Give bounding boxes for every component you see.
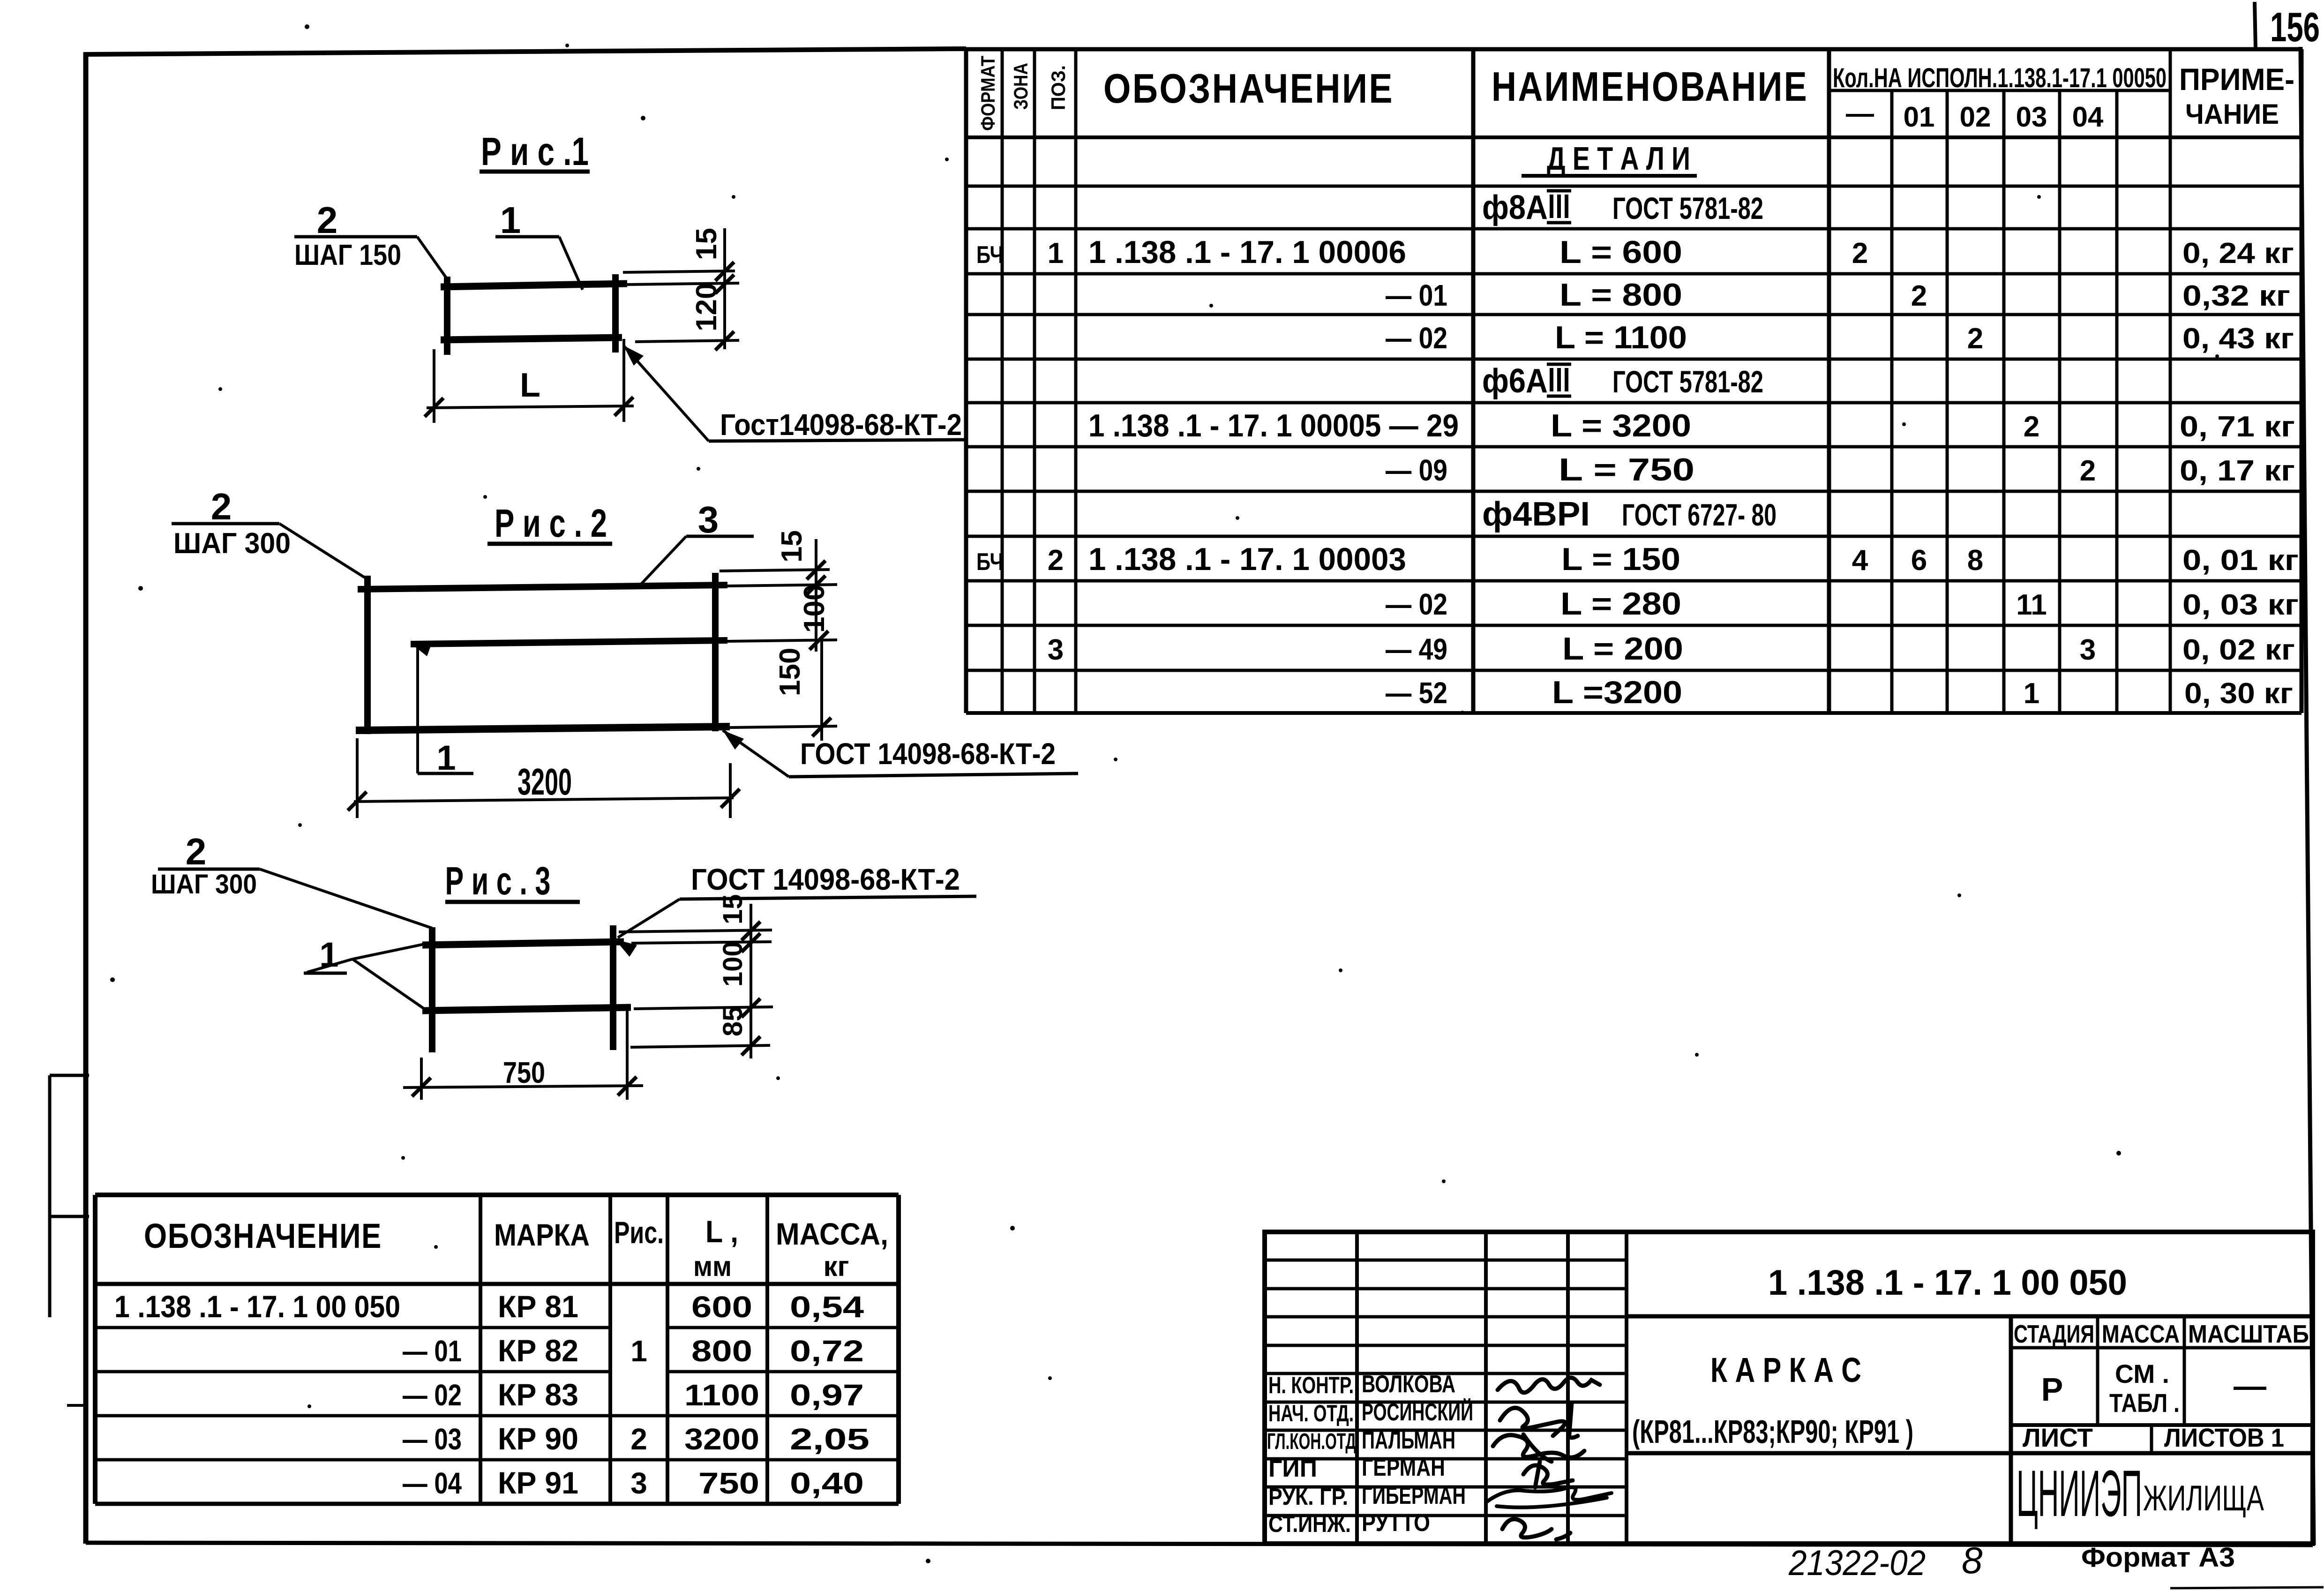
svg-text:0,32 кг: 0,32 кг: [2182, 280, 2290, 312]
marks table column line 4: [765, 1195, 769, 1504]
svg-text:ПРИМЕ-: ПРИМЕ-: [2179, 62, 2294, 97]
svg-text:МАССА,: МАССА,: [776, 1216, 888, 1251]
marks table row line 2: [95, 1370, 610, 1373]
Рис.2 3200 dim extension left: [356, 738, 359, 818]
Рис.3 right transverse bar: [610, 925, 616, 1050]
svg-text:Р: Р: [2041, 1371, 2063, 1408]
svg-text:3: 3: [630, 1466, 647, 1500]
svg-text:Кол.НА ИСПОЛН.1.138.1-17.1 000: Кол.НА ИСПОЛН.1.138.1-17.1 00050: [1833, 63, 2167, 93]
Рис.3 leader 2 line: [260, 869, 432, 928]
svg-text:Гост14098-68-КТ-2: Гост14098-68-КТ-2: [720, 408, 962, 442]
svg-text:мм: мм: [693, 1251, 732, 1282]
svg-text:150: 150: [774, 648, 806, 696]
title block row line: [1265, 1372, 1627, 1375]
Рис.3 extension line bar bottom: [630, 1045, 770, 1047]
svg-text:— 49: — 49: [1386, 632, 1447, 666]
svg-text:— 03: — 03: [403, 1422, 462, 1456]
signature Волкова: [1498, 1378, 1600, 1393]
svg-text:кг: кг: [823, 1251, 849, 1282]
spec table column line 3: [1074, 49, 1078, 713]
svg-text:— 52: — 52: [1386, 676, 1447, 710]
Рис.3 extension line top bar: [631, 942, 772, 943]
Рис.2 leader 3 underline: [686, 535, 754, 538]
Рис.1 extension line bar top: [623, 271, 735, 272]
Рис.3 extension line bar top: [619, 930, 772, 932]
Рис.3 caption underline: [445, 900, 580, 904]
stadiya row bottom: [2011, 1423, 2313, 1427]
svg-text:— 04: — 04: [403, 1466, 462, 1500]
svg-text:156: 156: [2270, 4, 2320, 50]
svg-text:ЛИСТОВ 1: ЛИСТОВ 1: [2164, 1423, 2284, 1452]
svg-text:ГОСТ 14098-68-КТ-2: ГОСТ 14098-68-КТ-2: [800, 737, 1056, 771]
spec table column line 0: [964, 49, 968, 713]
svg-text:НАИМЕНОВАНИЕ: НАИМЕНОВАНИЕ: [1492, 63, 1808, 110]
svg-text:БЧ: БЧ: [976, 548, 1004, 576]
svg-text:0, 17 кг: 0, 17 кг: [2180, 455, 2295, 487]
Рис.1 dim tick c: [715, 331, 734, 350]
massa/masshtab divider: [2183, 1316, 2186, 1425]
Рис.3 leader 1 line to top bar: [352, 944, 424, 959]
svg-text:0,97: 0,97: [790, 1378, 864, 1412]
svg-text:КР 82: КР 82: [498, 1333, 578, 1368]
svg-text:0, 02 кг: 0, 02 кг: [2182, 634, 2295, 666]
title block grid: [1265, 1232, 2313, 1544]
Рис.3 leader 1 line a: [307, 959, 352, 972]
Рис.2 3200 dim extension right: [729, 763, 732, 818]
marks table column line 3: [666, 1195, 669, 1504]
svg-text:Формат А3: Формат А3: [2081, 1542, 2235, 1573]
Рис.1 leader 2 underline: [294, 235, 417, 239]
Рис.3 left transverse bar: [429, 927, 435, 1052]
Рис.1 L dim tick left: [425, 398, 443, 417]
spec table row line 11: [966, 579, 2302, 583]
svg-text:0,54: 0,54: [790, 1290, 864, 1324]
svg-text:2: 2: [317, 199, 338, 241]
svg-text:ф4ВРI: ф4ВРI: [1482, 495, 1590, 533]
svg-text:1 .138 .1 - 17. 1 00005 — 29: 1 .138 .1 - 17. 1 00005 — 29: [1088, 408, 1459, 443]
Рис.3 750 dim extension left: [420, 1058, 423, 1100]
scan speckles: [305, 24, 309, 29]
signature Гиберман: [1486, 1487, 1612, 1508]
Рис.1 L dimension line: [427, 406, 634, 408]
svg-text:— 02: — 02: [403, 1378, 462, 1412]
svg-text:3200: 3200: [684, 1422, 759, 1456]
svg-text:3200: 3200: [517, 761, 572, 803]
svg-text:НАЧ. ОТД.: НАЧ. ОТД.: [1268, 1400, 1354, 1426]
marks table column line 1: [479, 1195, 482, 1504]
svg-text:ГИП: ГИП: [1268, 1456, 1317, 1482]
figure Рис.2 group: [172, 486, 1078, 818]
svg-text:750: 750: [503, 1056, 545, 1089]
svg-text:2: 2: [1852, 237, 1868, 270]
svg-text:Н. КОНТР.: Н. КОНТР.: [1268, 1372, 1354, 1398]
svg-text:0,72: 0,72: [790, 1334, 864, 1368]
title block row line: [1265, 1401, 1627, 1404]
Рис.2 extension line bottom bar: [730, 726, 837, 728]
title block row line: [1265, 1486, 1627, 1489]
Рис.1 leader 1 line: [559, 237, 583, 290]
svg-text:600: 600: [691, 1290, 752, 1324]
svg-text:L = 800: L = 800: [1559, 277, 1682, 313]
Рис.3 weld leader line: [618, 899, 680, 938]
svg-text:800: 800: [691, 1334, 752, 1368]
svg-text:ШАГ 300: ШАГ 300: [151, 869, 257, 900]
svg-text:ф8А: ф8А: [1482, 189, 1548, 226]
left margin binding tab: [50, 1074, 89, 1077]
title block row line: [1265, 1514, 1627, 1517]
svg-text:8: 8: [1962, 1539, 1983, 1581]
Рис.2 extension line top bar: [727, 585, 837, 586]
svg-text:03: 03: [2016, 101, 2047, 133]
marks table row line 3: [95, 1414, 899, 1418]
Рис.2 top longitudinal bar: [358, 585, 727, 589]
svg-text:ОБОЗНАЧЕНИЕ: ОБОЗНАЧЕНИЕ: [144, 1216, 382, 1255]
svg-text:ГЛ.КОН.ОТД: ГЛ.КОН.ОТД: [1267, 1429, 1356, 1454]
svg-text:L: L: [520, 367, 540, 404]
svg-text:750: 750: [698, 1466, 759, 1500]
Рис.3 leader 1 line to bottom bar: [352, 959, 424, 1009]
Рис.3 dim tick d: [742, 1036, 760, 1055]
svg-text:1: 1: [500, 199, 521, 241]
svg-text:СМ .: СМ .: [2115, 1359, 2169, 1388]
Рис.1 L dim tick right: [615, 397, 633, 416]
title block row line: [1265, 1344, 1627, 1347]
svg-text:ШАГ 150: ШАГ 150: [294, 239, 401, 271]
signature Герман: [1523, 1462, 1573, 1487]
svg-text:2,05: 2,05: [790, 1422, 870, 1456]
Рис.1 bottom longitudinal bar: [441, 338, 622, 340]
page number tick mark: [2255, 2, 2256, 48]
Рис.1 caption underline: [480, 170, 590, 174]
Рис.2 middle longitudinal bar: [411, 640, 727, 644]
svg-text:2: 2: [211, 486, 232, 527]
spec table column line 11: [2169, 49, 2172, 713]
svg-text:МАРКА: МАРКА: [494, 1217, 590, 1252]
svg-text:1: 1: [2024, 677, 2039, 710]
svg-text:ЗОНА: ЗОНА: [1010, 63, 1032, 110]
Рис.3 leader 2 underline: [158, 868, 260, 871]
svg-text:ГИБЕРМАН: ГИБЕРМАН: [1362, 1482, 1466, 1509]
marks table header bottom: [95, 1282, 899, 1286]
svg-text:КР 83: КР 83: [498, 1377, 578, 1412]
svg-text:3: 3: [2080, 634, 2096, 666]
title block vertical 4290: [2009, 1315, 2013, 1318]
svg-text:15: 15: [718, 894, 748, 924]
marks table row line 1: [95, 1326, 610, 1329]
spec table outer top: [966, 47, 2302, 52]
svg-text:КР 90: КР 90: [498, 1421, 578, 1456]
svg-text:1 .138 .1 - 17. 1 00 050: 1 .138 .1 - 17. 1 00 050: [114, 1289, 400, 1324]
svg-text:4: 4: [1852, 544, 1868, 577]
Рис.1 L dim extension right: [622, 339, 625, 422]
spec table row line 4: [966, 272, 2302, 276]
spec table column line 1: [1001, 49, 1004, 713]
signature Пальман: [1493, 1434, 1584, 1462]
svg-text:Д Е Т А Л И: Д Е Т А Л И: [1547, 140, 1690, 177]
bottom marks table grid: [95, 1195, 899, 1504]
spec table column line 7: [1946, 90, 1949, 713]
figure Рис.1 group: [294, 129, 967, 442]
sheet frame top border: [83, 49, 966, 54]
svg-text:21322-02: 21322-02: [1788, 1543, 1926, 1583]
svg-text:ЦНИИЭП: ЦНИИЭП: [2017, 1456, 2142, 1530]
svg-text:ОБОЗНАЧЕНИЕ: ОБОЗНАЧЕНИЕ: [1103, 65, 1394, 112]
svg-text:L ,: L ,: [705, 1214, 738, 1249]
left margin fold dash: [67, 1404, 88, 1407]
svg-text:— 02: — 02: [1386, 587, 1447, 621]
svg-text:РУК. ГР.: РУК. ГР.: [1268, 1484, 1348, 1510]
svg-text:1 .138 .1 - 17. 1 00003: 1 .138 .1 - 17. 1 00003: [1088, 541, 1406, 577]
marks table bottom: [95, 1502, 899, 1506]
stadiya/massa divider: [2096, 1316, 2099, 1425]
Рис.2 weld leader underline: [789, 773, 1078, 777]
svg-text:2: 2: [1911, 280, 1927, 312]
svg-text:1100: 1100: [684, 1378, 759, 1412]
Рис.1 weld leader underline: [709, 440, 967, 441]
spec table column line 9: [2058, 90, 2062, 713]
svg-text:15: 15: [690, 228, 723, 260]
svg-text:L = 3200: L = 3200: [1551, 408, 1691, 443]
svg-text:0, 24 кг: 0, 24 кг: [2182, 237, 2294, 270]
Рис.2 dim tick b: [807, 576, 825, 594]
stadiya massa masshtab header underline: [2011, 1346, 2313, 1350]
Рис.3 bottom longitudinal bar: [422, 1007, 631, 1011]
marks table column line 2: [608, 1195, 612, 1504]
svg-text:0, 43 кг: 0, 43 кг: [2182, 323, 2294, 355]
Рис.3 750 dim tick left: [412, 1078, 431, 1096]
Рис.2 caption underline: [487, 542, 612, 546]
svg-text:ГЕРМАН: ГЕРМАН: [1362, 1454, 1445, 1481]
svg-text:ГОСТ 6727- 80: ГОСТ 6727- 80: [1622, 497, 1777, 532]
svg-text:1 .138 .1 - 17. 1 00 050: 1 .138 .1 - 17. 1 00 050: [1768, 1263, 2127, 1303]
Рис.2 3200 dim tick left: [348, 792, 367, 811]
svg-text:Р и с . 2: Р и с . 2: [495, 501, 607, 545]
svg-text:(КР81...КР83;КР90; КР91 ): (КР81...КР83;КР90; КР91 ): [1632, 1413, 1913, 1450]
Рис.1 L dim extension left: [433, 349, 435, 423]
svg-text:ф6А: ф6А: [1482, 362, 1548, 400]
spec table row line 13: [966, 669, 2302, 672]
Рис.2 extension line middle bar: [727, 640, 837, 641]
svg-text:15: 15: [776, 530, 808, 563]
svg-text:ТАБЛ .: ТАБЛ .: [2109, 1388, 2180, 1418]
svg-text:85: 85: [718, 1006, 748, 1036]
svg-text:Рис.: Рис.: [614, 1215, 664, 1250]
Рис.3 dim tick a: [742, 922, 760, 940]
spec table row line 2: [966, 185, 2302, 188]
Рис.2 leader 2 line: [279, 524, 365, 578]
svg-text:ЖИЛИЩА: ЖИЛИЩА: [2143, 1478, 2264, 1518]
Рис.1 dim tick a: [715, 262, 734, 281]
svg-text:СТ.ИНЖ.: СТ.ИНЖ.: [1268, 1511, 1351, 1537]
svg-text:— 01: — 01: [403, 1334, 462, 1368]
sheet frame bottom border: [86, 1543, 2313, 1545]
spec table column line 2: [1033, 49, 1036, 713]
Рис.2 leader 1 vertical line: [416, 647, 419, 773]
specification table grid: [966, 49, 2302, 713]
signature Рутто: [1502, 1519, 1570, 1539]
Рис.3 top longitudinal bar: [422, 942, 624, 945]
svg-text:—: —: [1846, 98, 1874, 129]
svg-text:11: 11: [2016, 589, 2047, 621]
svg-text:ВОЛКОВА: ВОЛКОВА: [1362, 1371, 1455, 1398]
svg-text:0,40: 0,40: [790, 1466, 864, 1500]
Рис.2 left transverse bar: [364, 576, 371, 734]
svg-text:2: 2: [2080, 455, 2096, 487]
specification table header text: [977, 56, 2294, 133]
svg-text:Р и с . 3: Р и с . 3: [445, 859, 551, 903]
title block row line: [1265, 1457, 1627, 1461]
svg-text:02: 02: [1960, 101, 1991, 133]
Рис.1 weld leader line: [623, 345, 709, 441]
list/listov divider: [2150, 1425, 2153, 1453]
svg-text:3: 3: [1048, 634, 1064, 666]
Рис.1 leader 1 underline: [495, 235, 559, 239]
Рис.2 3200 dimension line: [354, 798, 734, 802]
title block vertical line: [1625, 1232, 1628, 1544]
svg-text:1: 1: [630, 1334, 647, 1368]
Рис.3 dimension line vertical: [750, 904, 752, 1058]
svg-text:0, 03 кг: 0, 03 кг: [2182, 589, 2299, 621]
svg-text:МАСШТАБ: МАСШТАБ: [2188, 1320, 2309, 1348]
svg-text:L = 200: L = 200: [1562, 631, 1683, 667]
title block row line: [1265, 1259, 1627, 1262]
Рис.2 leader 2 underline: [172, 522, 279, 525]
Рис.2 middle bar arrow: [412, 644, 431, 656]
svg-text:— 02: — 02: [1386, 321, 1447, 355]
spec table row line 10: [966, 535, 2302, 538]
svg-text:2: 2: [630, 1422, 647, 1456]
spec table column line 10: [2115, 90, 2119, 713]
Рис.1 top longitudinal bar: [441, 284, 627, 287]
Рис.2 dim tick c: [810, 631, 828, 650]
svg-text:ПАЛЬМАН: ПАЛЬМАН: [1362, 1427, 1455, 1454]
Рис.2 dim tick a: [807, 561, 825, 579]
spec table column line 8: [2002, 90, 2006, 713]
sheet frame right border: [2301, 47, 2314, 1545]
svg-text:8: 8: [1967, 544, 1983, 577]
sheet frame left border: [83, 53, 89, 1544]
marks table column line 0: [93, 1195, 97, 1504]
marks table top: [95, 1193, 899, 1197]
svg-text:БЧ: БЧ: [976, 241, 1004, 269]
Рис.2 right transverse bar: [712, 573, 719, 731]
signature Росинский: [1500, 1403, 1578, 1438]
title block row line: [1265, 1287, 1627, 1291]
spec table column line 5: [1827, 49, 1831, 713]
title block outer border: [1265, 1232, 2313, 1544]
svg-text:ГОСТ 5781-82: ГОСТ 5781-82: [1612, 191, 1763, 225]
spec table row line 3: [966, 227, 2302, 231]
Рис.1 left transverse bar: [444, 277, 450, 355]
svg-text:ГОСТ 5781-82: ГОСТ 5781-82: [1612, 364, 1763, 399]
svg-text:ГОСТ 14098-68-КТ-2: ГОСТ 14098-68-КТ-2: [691, 863, 960, 896]
Рис.2 3200 dim tick right: [721, 789, 740, 808]
svg-text:L = 1100: L = 1100: [1555, 320, 1687, 355]
svg-text:2: 2: [1967, 323, 1983, 355]
title block designation band bottom: [1627, 1314, 2313, 1319]
svg-text:2: 2: [1048, 544, 1064, 577]
Рис.3 weld leader arrow: [615, 939, 637, 957]
Рис.3 weld leader underline: [680, 896, 976, 899]
svg-text:РУТТО: РУТТО: [1362, 1509, 1430, 1537]
Рис.1 right transverse bar: [612, 274, 619, 353]
Рис.1 extension line top bar to dim: [627, 283, 739, 285]
Рис.2 dimension line vertical: [815, 539, 817, 652]
svg-text:КР 91: КР 91: [498, 1465, 578, 1500]
Рис.2 leader 1 horizontal line: [418, 772, 473, 775]
svg-text:1: 1: [436, 738, 456, 777]
svg-text:РОСИНСКИЙ: РОСИНСКИЙ: [1362, 1398, 1473, 1426]
svg-text:6: 6: [1911, 544, 1927, 577]
spec table row line 6: [966, 358, 2302, 361]
spec table column line 6: [1890, 90, 1894, 713]
svg-text:01: 01: [1904, 101, 1935, 133]
svg-text:3: 3: [698, 499, 719, 540]
signatures: [1486, 1378, 1612, 1539]
spec table column line 4: [1471, 49, 1476, 713]
spec table row line 7: [966, 401, 2302, 405]
spec table column line 12: [2300, 49, 2304, 713]
svg-text:0, 71 кг: 0, 71 кг: [2180, 411, 2295, 443]
svg-text:К А Р К А С: К А Р К А С: [1710, 1351, 1861, 1389]
svg-text:ЧАНИЕ: ЧАНИЕ: [2185, 98, 2279, 130]
bottom marks table text: [114, 1214, 888, 1500]
svg-text:ШАГ 300: ШАГ 300: [173, 527, 291, 560]
Рис.1 extension line bottom bar: [635, 340, 739, 342]
marks table row line 4: [95, 1458, 899, 1462]
marks table column line 5: [896, 1195, 901, 1504]
title block vertical line: [1355, 1232, 1359, 1544]
spec table row line 12: [966, 624, 2302, 627]
svg-text:0, 01 кг: 0, 01 кг: [2182, 544, 2299, 577]
Рис.2 weld leader line: [723, 730, 789, 777]
spec table row line 14: [966, 711, 2302, 715]
svg-text:1: 1: [1048, 237, 1064, 270]
title block vertical line: [1484, 1232, 1488, 1544]
Рис.1 leader 2 line: [417, 237, 447, 278]
svg-text:L = 280: L = 280: [1560, 586, 1681, 622]
svg-text:СТАДИЯ: СТАДИЯ: [2014, 1320, 2094, 1348]
Рис.2 extension line bar top: [720, 570, 830, 571]
bottom right scan line: [2170, 1587, 2324, 1588]
Рис.2 bottom longitudinal bar: [356, 727, 730, 730]
Рис.3 extension line bottom bar: [634, 1007, 773, 1009]
Рис.1 dimension line vertical: [723, 228, 726, 349]
svg-text:100: 100: [718, 941, 748, 987]
svg-text:ФОРМАТ: ФОРМАТ: [977, 56, 999, 131]
spec table row line 9: [966, 490, 2302, 493]
Рис.2 dim tick d: [812, 718, 831, 736]
Рис.3 750 dim tick right: [618, 1077, 637, 1096]
title block vertical line: [1566, 1232, 1570, 1544]
svg-text:—: —: [2234, 1367, 2266, 1404]
Рис.2 dimension line vertical b: [820, 640, 823, 741]
spec table row line 1: [966, 135, 2302, 139]
svg-text:1 .138 .1 - 17. 1 00006: 1 .138 .1 - 17. 1 00006: [1088, 234, 1406, 270]
svg-text:ПОЗ.: ПОЗ.: [1047, 65, 1069, 110]
Рис.3 750 dimension line: [403, 1086, 643, 1088]
specification table rows: [976, 140, 2299, 710]
svg-text:ЛИСТ: ЛИСТ: [2023, 1423, 2093, 1452]
Рис.1 dim tick b: [715, 275, 734, 293]
svg-text:100: 100: [798, 585, 831, 633]
svg-text:120: 120: [690, 283, 723, 331]
svg-text:Р и с .1: Р и с .1: [481, 129, 589, 173]
svg-text:2: 2: [186, 831, 207, 872]
spec table row line 5: [966, 313, 2302, 316]
svg-text:КР 81: КР 81: [498, 1289, 578, 1324]
spec table row line 8: [966, 445, 2302, 449]
